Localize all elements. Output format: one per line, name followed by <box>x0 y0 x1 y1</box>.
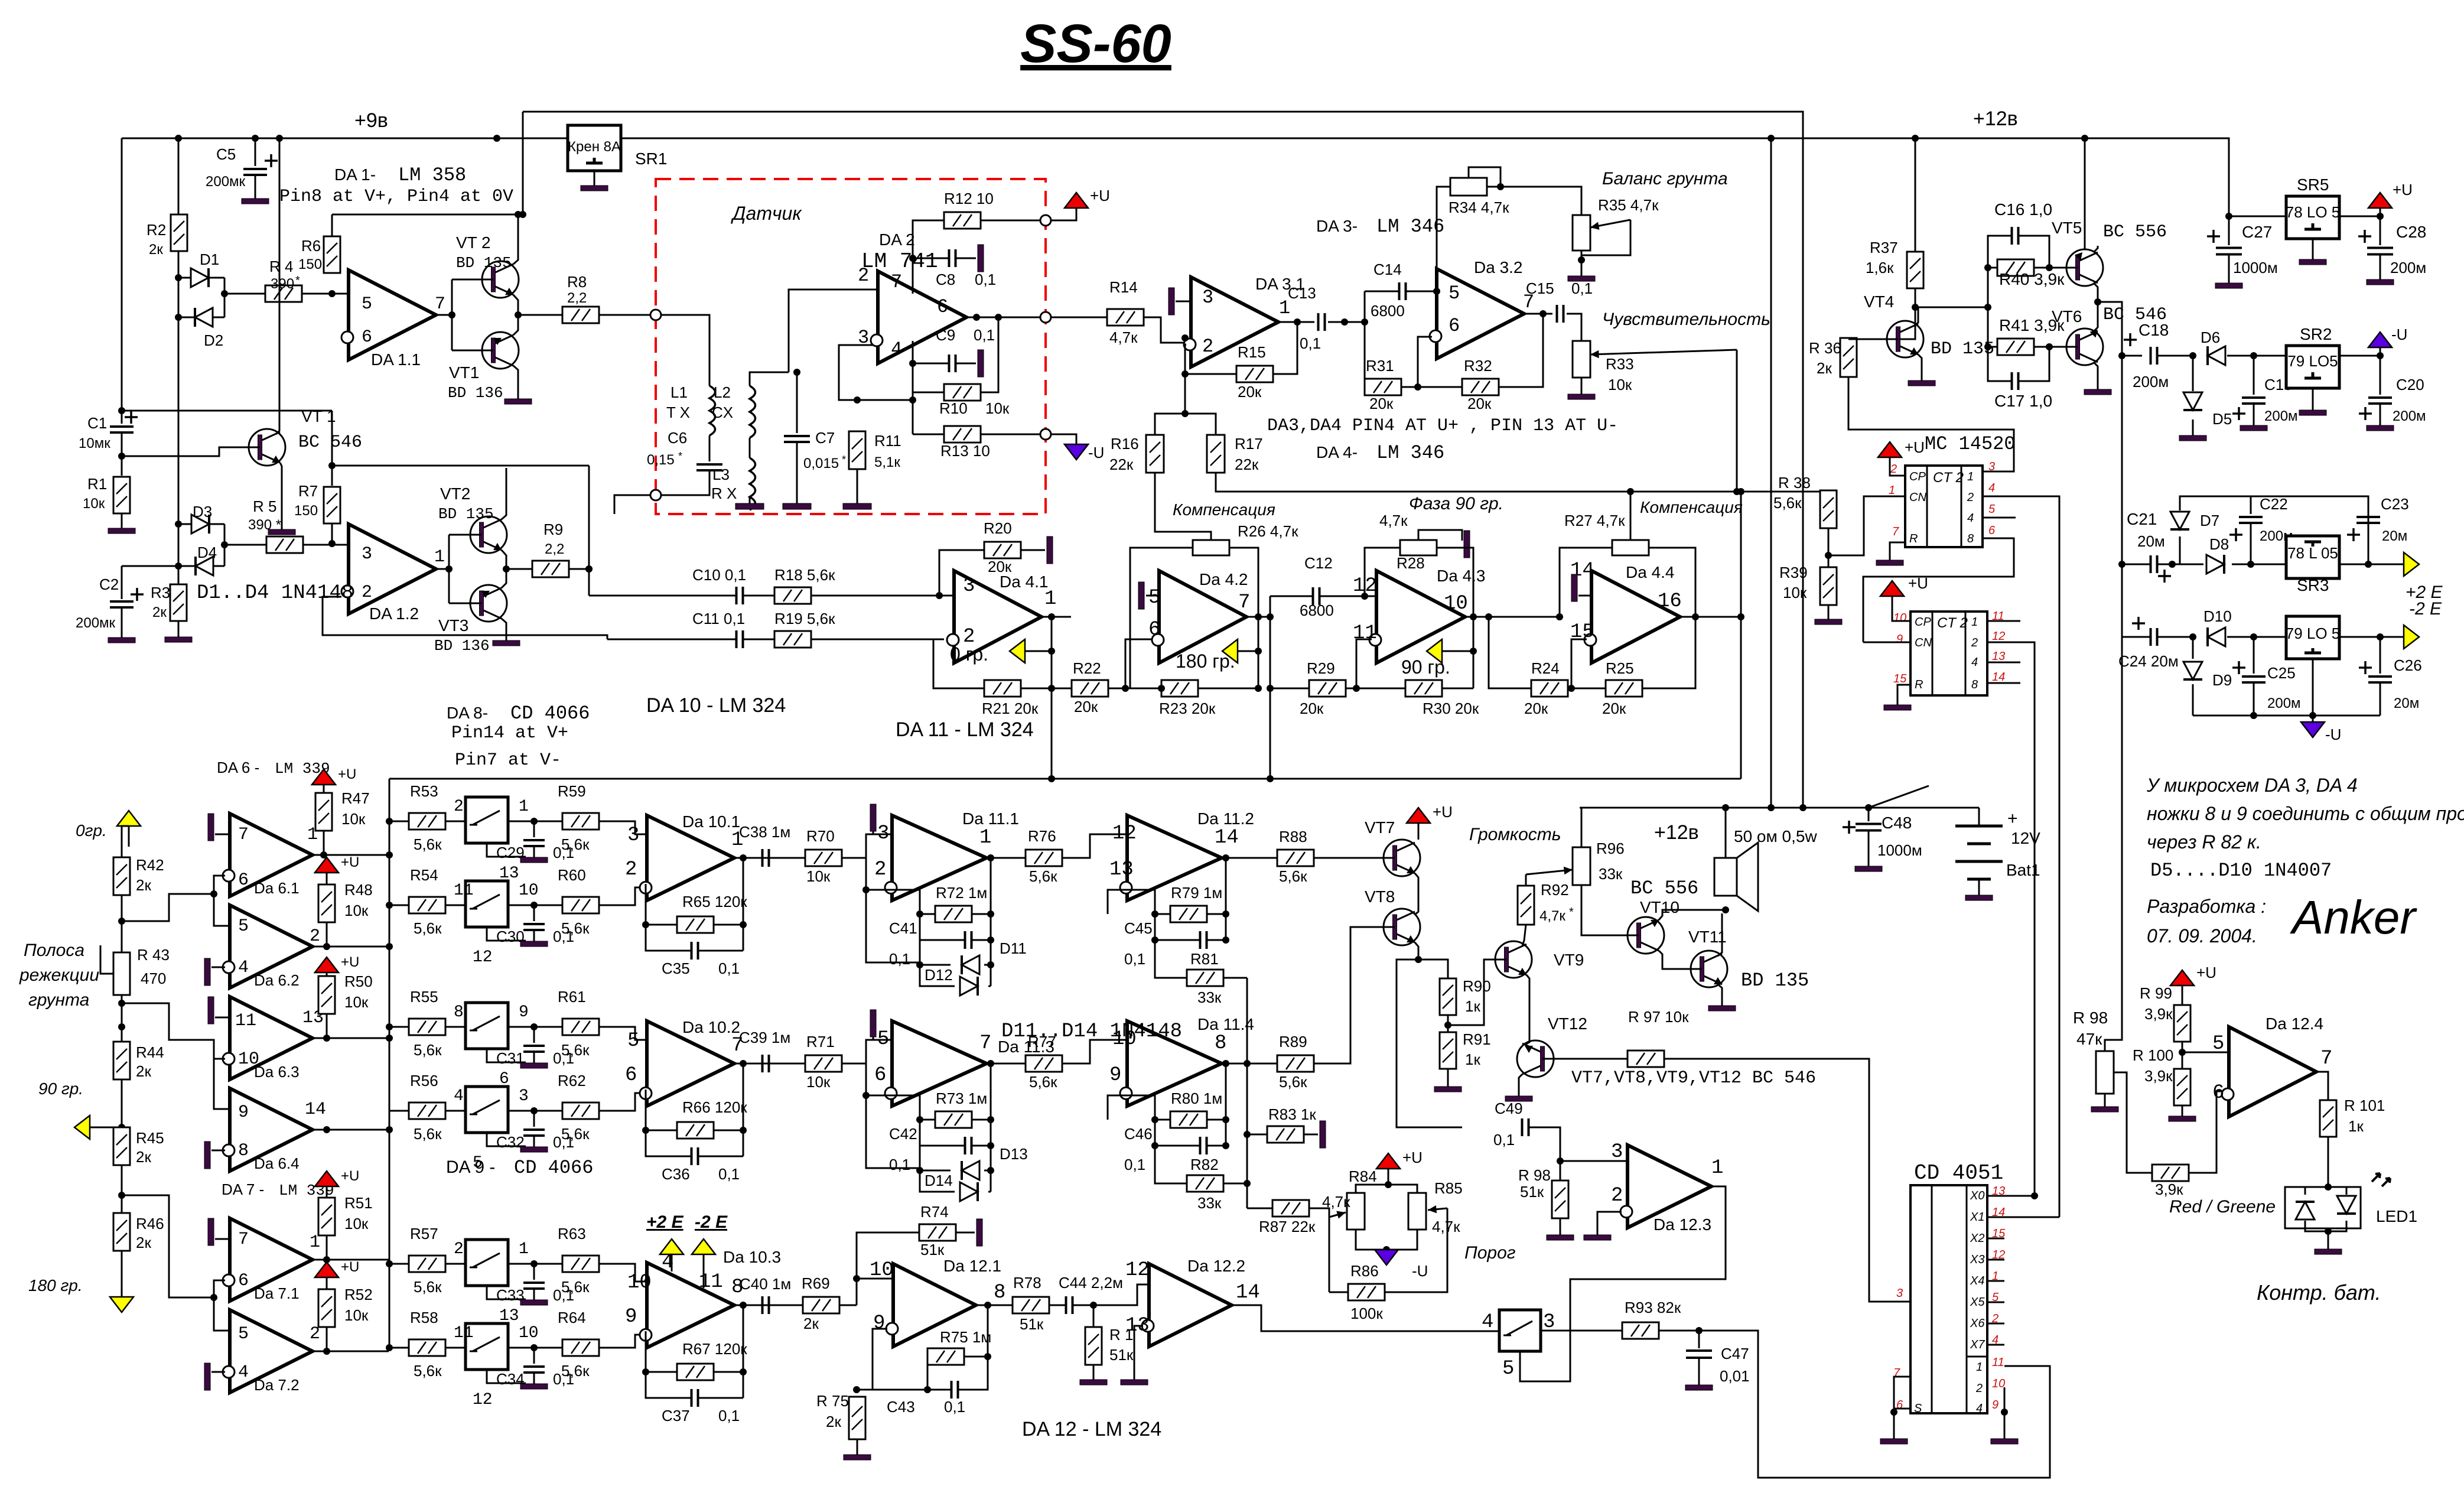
svg-text:DA 3-: DA 3- <box>1316 217 1358 235</box>
op-amp Da 4.4 <box>1591 571 1680 663</box>
op-amp Da 6.1 <box>230 814 313 896</box>
svg-text:10мк: 10мк <box>79 435 110 451</box>
svg-text:6: 6 <box>362 327 372 347</box>
svg-text:5,6к: 5,6к <box>1029 1073 1057 1091</box>
wire counter1 R pin ground <box>1890 542 1905 555</box>
svg-text:10: 10 <box>519 1324 539 1342</box>
wire R97 to CD4051 select <box>1664 1059 1910 1302</box>
wire C9 column <box>912 341 914 434</box>
resistor R15 20к <box>1236 366 1273 382</box>
wire R2 to diodes <box>178 251 180 331</box>
connector circle R8 input <box>650 310 661 320</box>
svg-text:R63: R63 <box>558 1225 586 1243</box>
resistor R18 5,6к <box>774 587 811 604</box>
wire Da6.3 inv to node <box>122 1003 225 1059</box>
svg-text:VT 2: VT 2 <box>456 233 491 252</box>
svg-text:14: 14 <box>1992 671 2005 684</box>
svg-text:Da 6.3: Da 6.3 <box>254 1063 300 1081</box>
svg-text:1: 1 <box>1889 484 1895 497</box>
svg-text:R66 120к: R66 120к <box>682 1098 747 1116</box>
wire R37 bottom <box>1915 288 1916 307</box>
switch DA8 2-1 <box>466 797 508 843</box>
resistor R39 10к <box>1820 567 1837 605</box>
resistor R89 to VT8 <box>1277 1055 1314 1072</box>
op-amp Da 6.4 <box>230 1088 313 1171</box>
svg-text:10к: 10к <box>806 1073 831 1091</box>
svg-text:Da 10.1: Da 10.1 <box>682 812 740 831</box>
svg-text:R 101: R 101 <box>2344 1097 2385 1114</box>
wire R96 tap from R92 <box>1525 874 1527 885</box>
transistor VT1 BD136 <box>474 332 519 369</box>
wire switch out <box>509 1263 562 1265</box>
capacitor C7 <box>796 372 798 433</box>
wire R12 path <box>913 220 944 294</box>
node +12v rail <box>1768 135 1775 142</box>
wire battery bottom to ground <box>1978 879 1980 889</box>
svg-text:BD 135: BD 135 <box>1741 970 1809 991</box>
svg-text:X4: X4 <box>1970 1274 1984 1287</box>
svg-text:10к: 10к <box>344 1306 369 1324</box>
svg-text:6: 6 <box>937 296 948 318</box>
svg-text:+2 E: +2 E <box>646 1212 684 1232</box>
svg-text:R96: R96 <box>1596 840 1625 857</box>
ground below R98 <box>1547 1218 1574 1240</box>
wire node to Da12.4 pin5 <box>2182 1052 2229 1053</box>
svg-text:Da 10.2: Da 10.2 <box>682 1018 740 1036</box>
svg-text:R62: R62 <box>558 1072 586 1090</box>
resistor R92 4,7к* <box>1518 886 1534 925</box>
wire sensor return outside <box>614 495 650 514</box>
svg-text:0,1: 0,1 <box>974 326 995 344</box>
capacitor C25 200м <box>2253 637 2255 674</box>
wire pin7 ground <box>1894 1377 1910 1412</box>
wire C1 node to VT1 base <box>122 447 256 456</box>
svg-text:R17: R17 <box>1235 435 1263 453</box>
svg-text:+U: +U <box>341 1259 359 1275</box>
wire R17 bottom compensation line <box>1216 473 1741 492</box>
svg-text:2: 2 <box>874 858 886 881</box>
resistor R79 1м <box>1170 906 1207 922</box>
wire Da12.3 inv to ground <box>1597 1212 1622 1235</box>
wire Da4.2 out down 180 tap <box>1258 617 1259 688</box>
wire Da12.4 out <box>2316 1072 2328 1100</box>
ground below R75 2к <box>844 1439 871 1460</box>
svg-text:Da 11.2: Da 11.2 <box>1197 809 1254 828</box>
svg-text:+U: +U <box>338 766 356 782</box>
svg-text:6: 6 <box>874 1064 886 1087</box>
resistor R48 10к <box>318 884 335 922</box>
svg-text:Da 3.2: Da 3.2 <box>1474 258 1523 277</box>
wire R96 bottom to VT10 base <box>1581 885 1628 935</box>
svg-text:20м: 20м <box>2382 528 2407 544</box>
svg-text:CN: CN <box>1915 636 1932 649</box>
svg-text:SR3: SR3 <box>2297 576 2329 594</box>
svg-text:DA 10 - LM 324: DA 10 - LM 324 <box>646 694 786 717</box>
svg-text:R60: R60 <box>558 866 586 884</box>
resistor R59 5,6к <box>562 813 599 830</box>
svg-text:0,015: 0,015 <box>803 456 839 471</box>
ground below C32 <box>520 1136 548 1152</box>
svg-text:10: 10 <box>519 882 539 900</box>
wire Da12.1 output <box>976 1305 1013 1306</box>
svg-text:R28: R28 <box>1397 554 1425 572</box>
wire R8 to sensor connector <box>599 314 650 316</box>
wire R32 to DA3.2 out <box>1499 314 1543 387</box>
svg-text:C7: C7 <box>815 429 835 447</box>
svg-text:51к: 51к <box>1520 1183 1544 1201</box>
svg-text:10: 10 <box>1112 1028 1137 1051</box>
svg-text:VT5: VT5 <box>2052 219 2082 237</box>
resistor R45 2к <box>113 1127 130 1165</box>
R96 tap arrow <box>1526 870 1573 874</box>
wire R5 to DA1.2 <box>303 545 349 548</box>
svg-text:5: 5 <box>2212 1033 2224 1055</box>
switch DA8 2-1 <box>466 1240 508 1286</box>
svg-text:R45: R45 <box>136 1129 164 1147</box>
power +U right top <box>2380 208 2381 216</box>
svg-text:5,6к: 5,6к <box>414 1041 442 1059</box>
svg-text:6: 6 <box>2212 1082 2224 1104</box>
svg-text:C48: C48 <box>1882 814 1912 832</box>
wire node down long vertical to R98 <box>2105 356 2122 1051</box>
svg-text:12: 12 <box>1125 1259 1150 1282</box>
wire R93 node to CD4051 <box>1699 1331 2050 1478</box>
svg-text:4,7к: 4,7к <box>1109 329 1138 346</box>
svg-text:14: 14 <box>1215 827 1239 849</box>
switch control stub pin 6 <box>487 1049 526 1062</box>
svg-text:5,6к: 5,6к <box>561 1125 590 1143</box>
wire DA3.2 inv <box>1418 337 1432 387</box>
svg-text:BC 556: BC 556 <box>1630 877 1698 899</box>
svg-text:CX: CX <box>712 404 733 421</box>
svg-text:CP: CP <box>1909 470 1926 483</box>
wire +9v column branch y695 <box>122 410 332 412</box>
terminal Da7.2 inv <box>211 1371 225 1373</box>
resistor R32 20к <box>1462 379 1499 395</box>
connector circle DA2 +U <box>1040 215 1051 226</box>
svg-text:CD 4051: CD 4051 <box>1914 1161 2003 1185</box>
capacitor C45 0,1 <box>1200 931 1207 949</box>
resistor R 75 2к vertical <box>849 1397 865 1439</box>
svg-text:1: 1 <box>434 547 445 567</box>
wire switch out <box>509 905 562 906</box>
svg-text:BC 546: BC 546 <box>298 432 362 453</box>
svg-text:6800: 6800 <box>1300 601 1334 619</box>
inductor L1 TX <box>709 386 715 435</box>
wire Da12.2 +in <box>1125 1284 1149 1305</box>
svg-text:Датчик: Датчик <box>731 203 802 224</box>
svg-text:47к: 47к <box>2076 1030 2102 1048</box>
wire counter1 CN input <box>1828 496 1905 555</box>
R98 tap <box>2114 1072 2127 1084</box>
svg-text:R85: R85 <box>1434 1179 1463 1197</box>
svg-text:5,6к: 5,6к <box>1279 1073 1307 1091</box>
svg-text:L2: L2 <box>714 383 731 401</box>
svg-text:33к: 33к <box>1197 988 1222 1006</box>
svg-text:5,6к: 5,6к <box>561 835 590 853</box>
wire Da7.2 out <box>313 1351 389 1352</box>
svg-text:10к: 10к <box>344 1215 369 1232</box>
resistor R23 20к <box>1161 680 1198 697</box>
svg-text:3: 3 <box>362 544 372 564</box>
svg-text:через R 82 к.: через R 82 к. <box>2147 831 2261 853</box>
wire VT5 emitter up to +12 <box>2094 246 2098 252</box>
switch control stub pin 13 <box>487 1286 526 1299</box>
svg-text:R79 1м: R79 1м <box>1171 884 1222 902</box>
svg-text:R12 10: R12 10 <box>944 190 994 207</box>
resistor R54 5,6к <box>409 897 445 913</box>
transistor VT6 BC546 <box>2058 329 2103 365</box>
svg-text:VT7: VT7 <box>1365 818 1395 837</box>
counter CT2 #1 box <box>1905 466 1983 547</box>
resistor R8 2,2 <box>562 307 599 323</box>
svg-text:C25: C25 <box>2267 664 2296 682</box>
svg-text:Полоса: Полоса <box>24 941 84 960</box>
svg-text:390: 390 <box>271 276 294 292</box>
svg-text:78 LO 5: 78 LO 5 <box>2286 203 2341 221</box>
voltage regulator SR2 79LO5 <box>2286 346 2339 388</box>
wire VT11 emitter to ground <box>1718 984 1722 999</box>
power +U above VT7 <box>1407 808 1430 823</box>
resistor R11 5,1к <box>857 431 858 447</box>
wire +12v down to battery rail <box>1770 138 1772 808</box>
ground below C20 <box>2367 404 2394 431</box>
resistor R19 5,6к <box>774 631 811 648</box>
svg-text:+12в: +12в <box>1654 821 1699 844</box>
wire counter2 CN <box>1863 642 1910 643</box>
capacitor C29 0,1 <box>533 821 535 837</box>
resistor R21 20к <box>984 680 1021 697</box>
svg-text:20к: 20к <box>1467 395 1492 412</box>
ground below C34 <box>520 1373 548 1389</box>
resistor R81 33к <box>1187 970 1223 986</box>
svg-text:0,1: 0,1 <box>718 1165 740 1183</box>
svg-text:R23 20к: R23 20к <box>1159 700 1216 717</box>
transistor VT8 <box>1375 909 1420 945</box>
ground below C30 <box>520 931 548 947</box>
resistor R75 1м <box>927 1348 964 1365</box>
resistor R1 10к <box>113 477 130 513</box>
wire R18 to DA4.1 <box>811 595 954 597</box>
resistor R 97 10к <box>1628 1051 1664 1067</box>
ground below Da12.2 inv <box>1121 1365 1148 1385</box>
wire R90/R91 node to VT9 base <box>1448 960 1496 1025</box>
svg-text:CT 2: CT 2 <box>1937 615 1968 631</box>
svg-text:+U: +U <box>1433 803 1453 821</box>
svg-text:Чувствительность: Чувствительность <box>1602 310 1770 329</box>
wire R33 tap down to compensation line <box>1736 350 1738 492</box>
svg-text:VT8: VT8 <box>1365 887 1395 906</box>
pot R 43 470 <box>113 952 130 995</box>
svg-text:6: 6 <box>238 870 249 890</box>
resistor R83 1к <box>1267 1126 1304 1143</box>
svg-text:2к: 2к <box>149 242 163 258</box>
svg-text:BD 135: BD 135 <box>456 254 512 272</box>
capacitor C31 0,1 <box>533 1027 535 1043</box>
resistor R52 10к <box>318 1289 335 1327</box>
svg-text:R56: R56 <box>410 1072 438 1090</box>
wire into L1 <box>661 315 709 386</box>
svg-text:C15: C15 <box>1526 279 1554 297</box>
svg-text:7: 7 <box>2320 1048 2332 1070</box>
svg-text:L1: L1 <box>670 383 688 401</box>
node C1 bottom <box>118 453 125 460</box>
voltage regulator 79LO5 #2 <box>2286 616 2339 659</box>
capacitor C41 0,1 <box>965 931 972 949</box>
svg-text:+U: +U <box>341 954 359 970</box>
resistor R2 <box>178 138 180 214</box>
ground below R98 pot <box>2091 1094 2118 1112</box>
svg-text:0,1: 0,1 <box>1124 950 1145 968</box>
capacitor C8 0,1 <box>949 249 956 267</box>
svg-text:1000м: 1000м <box>2233 259 2278 277</box>
resistor R65 120к <box>677 916 714 933</box>
svg-text:R50: R50 <box>344 973 373 990</box>
svg-text:X6: X6 <box>1970 1317 1985 1330</box>
svg-text:R 98: R 98 <box>2073 1009 2108 1027</box>
svg-text:R21 20к: R21 20к <box>982 700 1039 717</box>
svg-text:R72 1м: R72 1м <box>936 884 987 902</box>
svg-text:5,6к: 5,6к <box>1773 494 1802 512</box>
wire Da6.3 out <box>313 1038 389 1039</box>
switch DA8 8-9 <box>466 1003 508 1049</box>
terminal Da4.2 +in <box>1146 595 1159 597</box>
svg-text:VT 1: VT 1 <box>301 407 336 425</box>
wire R57 to switch <box>389 1263 409 1265</box>
svg-text:D11: D11 <box>1000 939 1027 957</box>
capacitor C46 0,1 <box>1200 1137 1207 1154</box>
node R5-R7 <box>328 540 336 547</box>
svg-text:MC 14520: MC 14520 <box>1925 433 2016 455</box>
terminal Da4.4 +in <box>1578 595 1591 597</box>
svg-text:0,1: 0,1 <box>1124 1156 1145 1173</box>
resistor R80 1м <box>1170 1111 1207 1128</box>
svg-text:C8: C8 <box>936 271 955 288</box>
svg-text:R44: R44 <box>136 1043 164 1061</box>
svg-text:2: 2 <box>1967 491 1974 504</box>
svg-text:R10: R10 <box>939 399 968 417</box>
svg-text:VT10: VT10 <box>1640 898 1679 916</box>
resistor R70 10к <box>805 850 842 866</box>
capacitor C15 0,1 <box>1557 305 1564 323</box>
svg-text:3: 3 <box>519 1087 529 1105</box>
wire R101 to LED <box>2328 1137 2329 1187</box>
node on +9v rail <box>252 135 259 142</box>
svg-text:2: 2 <box>1890 463 1897 476</box>
svg-text:1: 1 <box>519 1240 529 1258</box>
resistor R 98 51к <box>1552 1180 1568 1218</box>
node on +9v rail <box>493 135 500 142</box>
bus vertical to switches <box>389 779 390 1348</box>
svg-text:2: 2 <box>362 583 372 603</box>
svg-text:C16 1,0: C16 1,0 <box>1994 200 2052 219</box>
capacitor C1 <box>121 138 123 424</box>
svg-text:+U: +U <box>1905 438 1925 456</box>
wire counter2 pin12 to X0 vert <box>2031 1192 2038 1199</box>
svg-text:2: 2 <box>454 798 464 816</box>
svg-text:C9: C9 <box>936 326 955 344</box>
svg-text:Da 6.2: Da 6.2 <box>254 971 300 989</box>
wire VT7 emitter to VT8 collector <box>1415 873 1418 915</box>
svg-text:LM 741: LM 741 <box>861 249 938 274</box>
svg-text:4: 4 <box>1971 656 1978 669</box>
svg-text:R93 82к: R93 82к <box>1625 1299 1681 1316</box>
svg-text:R37: R37 <box>1870 239 1898 256</box>
svg-text:5: 5 <box>1148 587 1160 609</box>
wire R36 top to VT4 base <box>1848 339 1887 340</box>
node R4-R6 <box>328 290 336 297</box>
svg-text:C11 0,1: C11 0,1 <box>692 610 745 627</box>
resistor R55 5,6к <box>409 1019 445 1035</box>
svg-text:R29: R29 <box>1307 659 1335 677</box>
capacitor C17 1,0 <box>2012 372 2019 390</box>
capacitor C42 0,1 <box>965 1137 972 1154</box>
wire Da4.2 out <box>1246 616 1270 618</box>
wire Da 10.2 output <box>734 1063 779 1065</box>
wire Da7.2 +in <box>214 1297 230 1331</box>
svg-text:Pin7 at V-: Pin7 at V- <box>455 750 561 770</box>
resistor R41 3,9к <box>1997 339 2034 355</box>
svg-text:2,2: 2,2 <box>567 290 587 306</box>
wire Da4.4 inv <box>1571 639 1587 688</box>
svg-text:5: 5 <box>362 294 372 314</box>
ground below D5 <box>2192 419 2194 428</box>
resistor R61 5,6к <box>562 1019 599 1035</box>
wire Da4.1 out bus down <box>1051 617 1053 779</box>
svg-text:DA 6 -: DA 6 - <box>217 759 259 776</box>
transistor VT5 BC556 <box>2058 249 2103 286</box>
svg-text:C40 1м: C40 1м <box>740 1275 791 1293</box>
wire Da 10.3 output <box>734 1305 779 1306</box>
svg-text:+9в: +9в <box>354 109 388 132</box>
svg-text:R18 5,6к: R18 5,6к <box>774 566 835 584</box>
R43 tap <box>100 945 113 974</box>
power -U threshold <box>1356 1230 1417 1250</box>
svg-text:R61: R61 <box>558 988 586 1006</box>
wire R34 to R35 top <box>1536 187 1581 215</box>
svg-text:5,6к: 5,6к <box>414 1278 442 1296</box>
wire R36 bottom down to counter pin3 <box>1848 377 2014 471</box>
op-amp Da 12.1 <box>893 1264 976 1347</box>
svg-text:SR2: SR2 <box>2300 325 2332 343</box>
svg-text:Da 12.1: Da 12.1 <box>943 1257 1001 1275</box>
wire 79LO5 out <box>2339 636 2404 638</box>
resistor R71 10к <box>805 1055 842 1072</box>
svg-text:11: 11 <box>699 1271 723 1293</box>
capacitor C5 <box>255 138 256 166</box>
wire SR3 out <box>2339 564 2404 565</box>
wire R42 bottom node <box>121 895 123 953</box>
svg-text:Pin8 at V+, Pin4 at 0V: Pin8 at V+, Pin4 at 0V <box>279 187 513 207</box>
svg-text:Компенсация: Компенсация <box>1640 498 1743 516</box>
resistor R9 2,2 <box>532 561 569 577</box>
svg-text:T X: T X <box>666 404 690 421</box>
svg-text:DA 1.2: DA 1.2 <box>369 604 419 623</box>
svg-text:4,7к: 4,7к <box>1432 1218 1460 1235</box>
svg-text:8: 8 <box>238 1141 249 1161</box>
transistor VT2 BD135 <box>474 261 519 298</box>
svg-text:2: 2 <box>625 858 637 881</box>
wire DA2 +in from L2 <box>789 290 878 372</box>
svg-text:Da 6.1: Da 6.1 <box>254 879 300 897</box>
svg-text:C36: C36 <box>662 1165 690 1183</box>
CD4051 box <box>1910 1185 1987 1413</box>
connector circle DA2 out <box>1040 312 1051 323</box>
svg-text:1: 1 <box>519 798 529 816</box>
ground below SR1 <box>594 171 595 186</box>
ground below C7 <box>796 443 798 503</box>
power -2E yellow right <box>2404 625 2419 649</box>
